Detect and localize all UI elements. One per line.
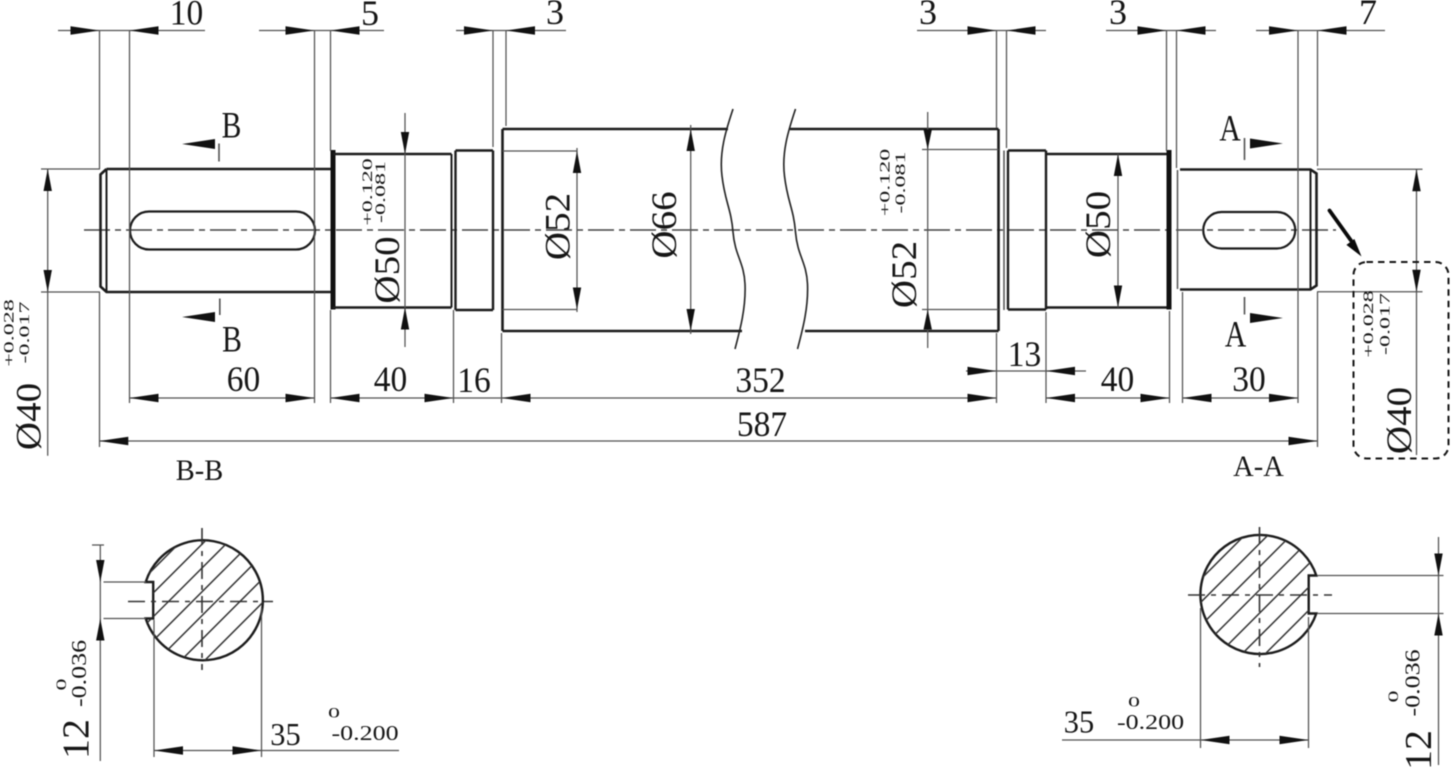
dimension Ø52 left	[576, 148, 578, 312]
dimension 352	[502, 397, 997, 399]
svg-text:B: B	[222, 106, 242, 147]
svg-text:B-B: B-B	[176, 455, 223, 488]
break line 1	[721, 109, 745, 349]
dimension 12 A-A	[1317, 575, 1444, 577]
svg-text:-0.200: -0.200	[331, 723, 398, 746]
svg-text:-0.017: -0.017	[16, 302, 32, 364]
svg-text:Ø66: Ø66	[645, 191, 684, 258]
svg-text:0: 0	[53, 678, 69, 690]
svg-text:Ø40: Ø40	[10, 383, 49, 450]
dimension 35 A-A	[1200, 608, 1202, 748]
extension lines bottom dims	[99, 292, 101, 447]
dimension 10	[58, 30, 205, 32]
svg-text:0: 0	[1385, 690, 1401, 702]
svg-text:Ø40: Ø40	[1380, 387, 1419, 454]
collar ring right (13 wide)	[1007, 151, 1009, 310]
svg-text:-0.036: -0.036	[69, 640, 92, 707]
dimension Ø50 left	[404, 113, 406, 347]
shaft section Ø50 left outline	[331, 150, 336, 310]
svg-text:40: 40	[374, 359, 407, 399]
svg-text:+0.028: +0.028	[1, 299, 17, 367]
svg-text:10: 10	[170, 0, 203, 33]
relief groove right of middle section	[1003, 151, 1005, 311]
dimension 587 overall	[99, 440, 1317, 442]
shaft middle section outline	[501, 129, 504, 331]
collar ring left	[454, 151, 456, 311]
dimension 3 third	[1106, 30, 1216, 32]
shaft section Ø50 right outline	[1046, 153, 1167, 156]
dimension 35 B-B	[153, 620, 155, 757]
svg-text:12: 12	[56, 719, 98, 759]
svg-text:5: 5	[361, 0, 379, 33]
svg-text:3: 3	[546, 0, 564, 32]
section mark A bottom	[1250, 313, 1283, 323]
svg-text:3: 3	[1109, 0, 1127, 32]
chamfer line Ø52 right end	[922, 149, 999, 151]
svg-text:587: 587	[737, 404, 787, 444]
section mark B top	[182, 139, 215, 149]
chamfer line Ø52 left end	[503, 150, 578, 152]
svg-text:12: 12	[1398, 730, 1440, 770]
break line 2	[784, 109, 808, 349]
relief groove right journal	[1177, 170, 1179, 289]
center line of shaft axis	[84, 229, 1336, 231]
svg-text:-0.081: -0.081	[372, 161, 388, 223]
svg-text:16: 16	[457, 360, 490, 400]
svg-text:A: A	[1219, 109, 1240, 150]
section mark A top	[1250, 139, 1283, 149]
svg-text:Ø50: Ø50	[1079, 191, 1118, 258]
shaft section Ø40 left outline	[101, 169, 333, 292]
dimension 3 second	[917, 30, 1046, 32]
svg-text:-0.081: -0.081	[892, 152, 908, 214]
keyway slot left Ø40	[130, 212, 315, 250]
dimension Ø40 right in dashed box	[1317, 168, 1423, 170]
section A-A outline	[1200, 535, 1316, 654]
center lines B-B	[128, 601, 273, 603]
svg-text:7: 7	[1359, 0, 1377, 32]
section mark B bottom	[182, 312, 215, 322]
shaft section Ø40 right outline	[1180, 170, 1317, 290]
svg-text:13: 13	[1008, 334, 1041, 374]
extension lines top dims	[99, 30, 101, 169]
svg-text:60: 60	[227, 359, 260, 399]
section B-B outline	[146, 540, 263, 660]
svg-text:0: 0	[1128, 694, 1140, 710]
dimension 40 right	[1046, 397, 1170, 399]
svg-text:+0.028: +0.028	[1360, 290, 1376, 358]
dimension Ø50 right	[1117, 154, 1119, 308]
svg-text:40: 40	[1101, 359, 1134, 399]
svg-text:B: B	[222, 320, 242, 361]
keyway slot right Ø40	[1203, 212, 1295, 249]
dimension 5	[259, 30, 384, 32]
dimension 13	[966, 370, 1086, 372]
svg-text:35: 35	[1064, 704, 1094, 740]
dashed detail box	[1354, 262, 1449, 459]
dimension Ø40 left	[41, 168, 100, 170]
center lines A-A	[1188, 594, 1332, 596]
dimension 12 B-B	[104, 581, 147, 583]
dimension 40 left	[331, 397, 454, 399]
svg-text:+0.120: +0.120	[877, 149, 893, 217]
svg-text:3: 3	[919, 0, 937, 32]
svg-text:A-A: A-A	[1233, 451, 1284, 484]
dimension 60	[130, 397, 315, 399]
dimension Ø66	[690, 125, 692, 334]
svg-text:30: 30	[1232, 359, 1265, 399]
dimension 30	[1183, 397, 1299, 399]
svg-text:A: A	[1225, 315, 1246, 356]
dimension Ø52 right	[927, 112, 929, 348]
dimension 16	[454, 397, 502, 399]
svg-text:352: 352	[735, 360, 785, 400]
svg-text:Ø52: Ø52	[539, 193, 578, 260]
svg-text:-0.036: -0.036	[1402, 649, 1425, 716]
svg-text:Ø52: Ø52	[885, 241, 924, 308]
svg-text:35: 35	[270, 716, 300, 752]
dimension 3 first	[456, 30, 566, 32]
svg-text:0: 0	[328, 705, 340, 721]
svg-text:Ø50: Ø50	[368, 236, 407, 303]
leader arrow to surface detail	[1330, 211, 1352, 241]
svg-text:-0.017: -0.017	[1377, 293, 1393, 355]
svg-text:-0.200: -0.200	[1117, 712, 1184, 735]
dimension 7	[1256, 30, 1385, 32]
